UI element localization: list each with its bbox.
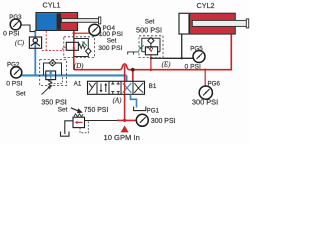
valve A directional 4/3	[88, 81, 145, 94]
gauge PG4	[89, 24, 100, 35]
svg-text:(A): (A)	[113, 98, 123, 105]
gauge PG2	[11, 67, 22, 78]
tank symbol (valve A)	[134, 107, 146, 111]
svg-text:(D): (D)	[74, 63, 84, 70]
svg-text:350 PSI: 350 PSI	[41, 98, 67, 107]
wire: CYL2 cap line	[181, 34, 183, 58]
wire: blue CYL1 cap line through valve C	[34, 30, 36, 75]
svg-text:Set: Set	[58, 106, 68, 113]
svg-text:Set: Set	[16, 90, 26, 97]
svg-text:PG1: PG1	[147, 107, 160, 114]
svg-text:PG3: PG3	[9, 14, 22, 21]
node: blue junction	[34, 74, 37, 77]
svg-text:CYL1: CYL1	[43, 1, 61, 10]
wire: valve E drop to B1	[150, 55, 152, 70]
wire: T port to tank	[131, 94, 137, 107]
gauge PG6	[199, 86, 212, 99]
svg-text:750 PSI: 750 PSI	[84, 107, 109, 114]
svg-text:(E): (E)	[162, 62, 172, 69]
wire: blue A1 horizontal line	[21, 75, 127, 81]
svg-text:A1: A1	[74, 80, 82, 87]
relief valve 750 PSI	[61, 108, 89, 136]
svg-text:10 GPM In: 10 GPM In	[104, 133, 140, 142]
node: junction rod line / PG4	[73, 32, 76, 35]
node: junction B1/valve	[131, 68, 135, 72]
cylinder CYL2	[179, 13, 249, 34]
svg-text:Set: Set	[145, 18, 155, 25]
svg-text:300 PSI: 300 PSI	[151, 118, 176, 125]
svg-text:(C): (C)	[15, 40, 25, 47]
svg-text:500 PSI: 500 PSI	[136, 26, 162, 35]
svg-text:PG2: PG2	[7, 61, 20, 68]
gauge PG3	[10, 19, 35, 32]
wire: red P supply vertical	[124, 65, 126, 120]
wire: red CYL1 rod line down to B1	[73, 30, 75, 69]
svg-text:Set: Set	[107, 38, 117, 45]
svg-text:0 PSI: 0 PSI	[6, 80, 22, 87]
wire: bottom supply line black part	[85, 120, 118, 122]
svg-text:PG6: PG6	[208, 80, 221, 87]
svg-text:CYL2: CYL2	[197, 1, 215, 10]
wire: red B1 horizontal with hop over P line	[74, 34, 232, 70]
svg-text:0 PSI: 0 PSI	[185, 64, 201, 71]
wire: PG6 stub	[204, 70, 206, 86]
valve D counterbalance	[64, 37, 95, 58]
wire: bottom supply line red part to PG1	[117, 119, 136, 121]
valve E counterbalance	[127, 36, 163, 58]
wire: red dashed pilot valve C/D	[42, 31, 67, 51]
svg-text:B1: B1	[149, 83, 157, 90]
wire: red B port drop	[132, 70, 134, 82]
svg-text:0 PSI: 0 PSI	[3, 30, 19, 37]
svg-text:300 PSI: 300 PSI	[192, 98, 218, 107]
pump inlet arrow 10 GPM	[121, 125, 129, 132]
gauge PG5	[193, 51, 205, 63]
svg-text:300 PSI: 300 PSI	[98, 45, 122, 52]
gauge PG1	[136, 114, 148, 126]
node: pump junction	[123, 119, 126, 122]
cylinder CYL1	[36, 13, 101, 31]
valve C pilot-operated check	[29, 37, 41, 48]
valve: pressure reducing 350 PSI	[40, 60, 67, 95]
svg-text:PG5: PG5	[190, 45, 203, 52]
wire: red stub to PG4	[74, 32, 90, 34]
